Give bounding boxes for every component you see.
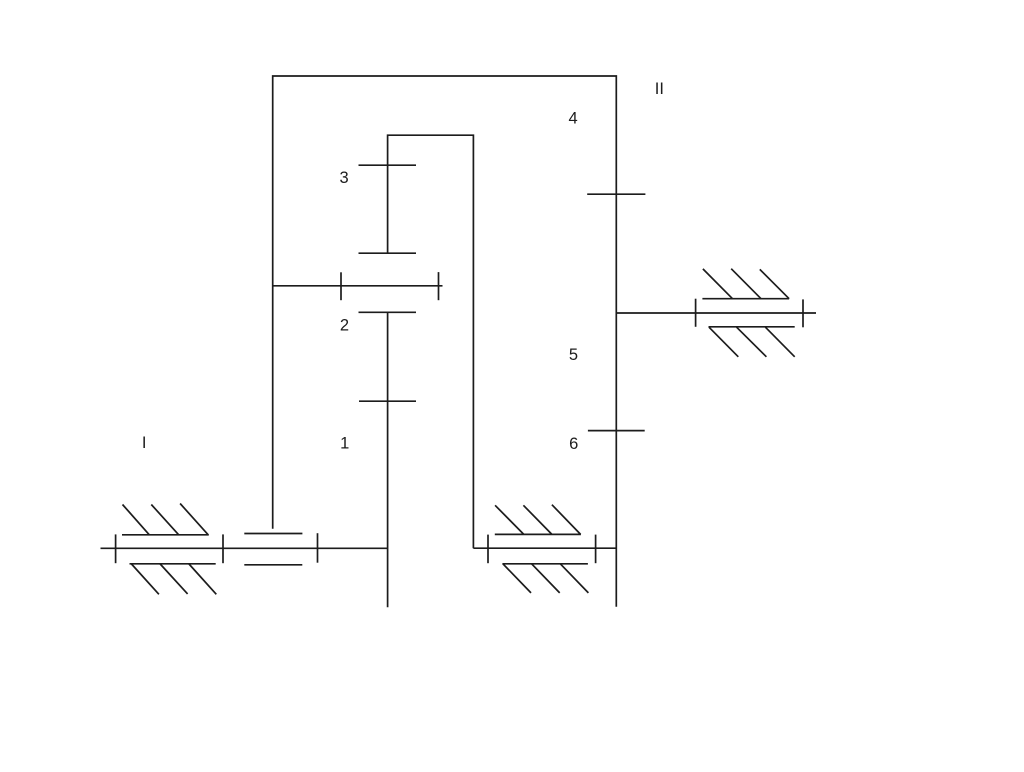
svg-text:5: 5: [569, 346, 578, 364]
svg-text:2: 2: [340, 317, 349, 335]
svg-text:I: I: [142, 434, 147, 452]
svg-text:6: 6: [569, 435, 578, 453]
svg-text:3: 3: [340, 169, 349, 187]
svg-text:1: 1: [340, 435, 349, 453]
svg-text:II: II: [655, 80, 664, 98]
svg-text:4: 4: [569, 109, 578, 127]
